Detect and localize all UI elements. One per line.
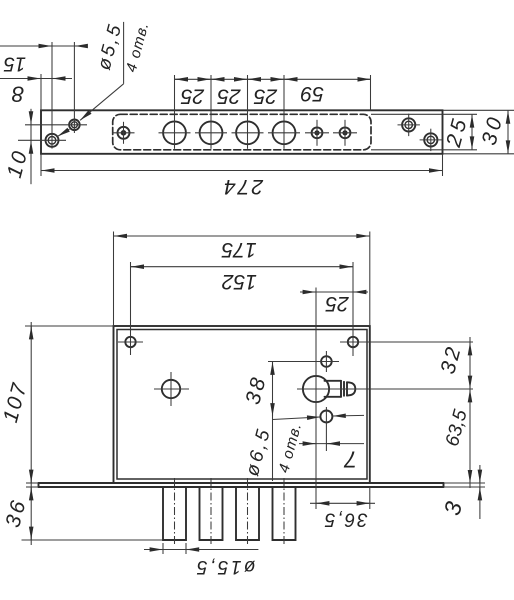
svg-text:152: 152 [222, 270, 257, 293]
leader o6,5 right segment arrow [333, 414, 364, 417]
centerline small hole upper horizontal [268, 361, 339, 363]
arrow 25c right [272, 78, 284, 80]
dimension 15 arrow left [39, 45, 52, 47]
arrow 25b right [235, 78, 247, 80]
centerline screw hole left horizontal [118, 341, 143, 343]
front view: case inner rectangle [117, 330, 367, 480]
top view: screw hole L2 outer [69, 120, 80, 131]
centerline small hole C vertical [123, 122, 125, 144]
dimension 30 vertical line [507, 110, 509, 154]
arrow 7 left [304, 443, 316, 445]
centerline screw hole R1 horizontal [398, 124, 420, 126]
top view: bolt hole 1 [163, 121, 186, 144]
svg-text:59: 59 [300, 82, 324, 105]
extension bolt hole 2 vertical [210, 75, 212, 149]
extension bar left edge up [40, 74, 42, 110]
centerline small hole C horizontal [113, 132, 135, 134]
centerline screw hole R2 horizontal [420, 139, 442, 141]
dimension 10 line [30, 109, 32, 184]
top view: screw hole R2 inner [427, 136, 434, 143]
svg-text:25: 25 [217, 84, 242, 107]
arrow 36,5 right [358, 502, 370, 504]
centerline screw hole R1 vertical [408, 114, 410, 136]
extension pocket top right [371, 113, 477, 115]
svg-text:8: 8 [11, 81, 24, 106]
top view: dashed pocket [113, 114, 371, 150]
arrow 36 top [30, 487, 32, 498]
extension bar left edge down [40, 154, 42, 176]
extension bar right edge down [442, 154, 444, 176]
dimension 107 line [30, 322, 32, 483]
front view: screw hole left [125, 337, 135, 347]
arrow 3 upper [479, 471, 481, 482]
front view: case outer rectangle [114, 326, 370, 483]
leader o5,5 vertical shelf [123, 22, 125, 84]
arrow o15,5 left [151, 549, 163, 551]
top view: screw hole L1 inner [48, 137, 56, 145]
dimension 10 arrow upper [30, 112, 32, 124]
arrow 36 bottom [30, 529, 32, 540]
centerline small hole B horizontal [333, 132, 357, 134]
dimension 25 keyhole line [300, 291, 368, 293]
extension screw hole right vertical [352, 262, 354, 356]
front view: keyhole shank bottom [325, 396, 342, 398]
arrow 59 right [359, 78, 371, 80]
dimension 36 line [30, 483, 32, 545]
arrow 175 left [114, 235, 126, 237]
centerline hole L1 horizontal [18, 139, 66, 141]
extension hole L1 vertical [51, 42, 53, 149]
top view: bolt hole 4 [273, 121, 296, 144]
front view: keyhole shank top [325, 380, 342, 382]
extension bar bottom right [443, 153, 514, 155]
extension plate bottom left [26, 486, 39, 488]
arrow 7 right [327, 443, 339, 445]
dimension 15 arrow right [75, 45, 87, 47]
extension case left up [113, 232, 115, 327]
svg-text:25: 25 [325, 292, 350, 315]
arrow 175 right [357, 235, 369, 237]
arrow 25b left [212, 78, 224, 80]
arrow 38 bottom [272, 405, 274, 417]
centerline bolt hole 2 horizontal [195, 132, 227, 134]
front view: keyhole collar line 1 [340, 381, 342, 397]
arrow 274 right [430, 170, 442, 172]
front view: bolt pin 2 [200, 487, 223, 540]
front view: small hole lower [320, 411, 332, 423]
arrow 107 bottom [30, 471, 32, 483]
front view: keyhole collar line 2 [343, 382, 345, 396]
arrow 25k right [353, 291, 365, 293]
arrow 25c left [248, 78, 260, 80]
dimension 3 line [479, 465, 481, 519]
arrow 32 top [469, 342, 471, 353]
top view: screw hole L2 inner [71, 122, 77, 128]
top view: small hole A filled center [314, 130, 319, 135]
svg-text:25: 25 [254, 84, 279, 107]
top view: small hole B ring [340, 127, 351, 138]
svg-text:15: 15 [3, 52, 26, 74]
dimension 15 line [0, 45, 86, 47]
arrow 30 bottom [507, 142, 509, 153]
dimension 274 line [41, 170, 443, 172]
leader o5,5 arrow to hole L1 [58, 129, 70, 136]
front view: keyhole circle [303, 376, 329, 402]
centerline screw hole R2 vertical [430, 129, 432, 151]
arrow 38 top [272, 362, 274, 374]
centerline hole L2 horizontal [25, 124, 87, 126]
dimension 152 line [131, 266, 354, 268]
front view: bolt pin 4 [273, 487, 296, 540]
arrow 25k left [304, 291, 316, 293]
extension pin1 left down [162, 543, 164, 554]
centerline pin 3 [247, 478, 249, 546]
top view: small hole C filled center [121, 130, 127, 136]
centerline small hole A horizontal [305, 132, 329, 134]
extension case right down [369, 487, 371, 509]
extension pin1 right down [185, 543, 187, 554]
extension plate bottom right [444, 486, 486, 488]
centerline small hole A vertical [316, 120, 318, 146]
centerline bolt hole 3 horizontal [232, 132, 264, 134]
front view: face plate top line [39, 482, 444, 484]
centerline pin 2 [210, 478, 212, 546]
front view: small hole upper [321, 356, 332, 367]
top view: small hole A ring [312, 127, 323, 138]
centerline keyhole horizontal [297, 388, 473, 390]
svg-text:36,5: 36,5 [323, 509, 368, 530]
svg-text:ø15,5: ø15,5 [194, 556, 255, 577]
arrow 36,5 left [316, 502, 328, 504]
arrow 25r top [471, 115, 473, 126]
dimension 25x3/59 line [175, 78, 371, 80]
extension bolt hole 4 vertical [283, 75, 285, 149]
front view: face plate bottom line [39, 486, 444, 488]
front view: face plate left end [38, 483, 40, 487]
arrow 274 left [42, 170, 54, 172]
svg-text:274: 274 [222, 175, 264, 198]
centerline small hole B vertical [344, 120, 346, 146]
dimension 10 arrow lower [30, 141, 32, 153]
arrow 25a left [175, 78, 187, 80]
arrow 152 right [341, 266, 353, 268]
centerline small hole upper vertical [325, 351, 327, 372]
centerline center hole vertical [170, 372, 172, 406]
extension bolt hole 1 vertical [174, 75, 176, 149]
arrow 3 lower [479, 487, 481, 498]
top view: screw hole R1 outer [402, 118, 415, 131]
arrow 152 left [131, 266, 143, 268]
front view: screw hole right [348, 337, 358, 347]
arrow 63,5 bottom [469, 472, 471, 483]
leader o6,5 arrow to lower hole [273, 417, 321, 420]
top view: small hole C ring [118, 127, 130, 139]
extension pocket right edge [370, 75, 372, 111]
svg-text:7: 7 [343, 447, 357, 473]
dimension 25 right vertical line [471, 114, 473, 150]
centerline pin 4 [283, 478, 285, 546]
leader o5,5 arrow to hole L2 [80, 84, 124, 121]
dimension o15,5 line [144, 549, 258, 551]
extension case top left [25, 325, 114, 327]
front view: bolt pin 1 [163, 487, 186, 540]
dimension 8 line [0, 78, 72, 80]
dimension 8 arrow left [28, 78, 41, 80]
top view: screw hole R2 outer [424, 133, 437, 146]
dimension 36,5 line [310, 502, 375, 504]
dimension 7 line [299, 443, 364, 445]
dimension 38 line and callout shelf [272, 362, 274, 482]
front view: bolt pin 3 [236, 487, 259, 540]
front view: keyhole collar line 3 [346, 382, 348, 395]
dimension 32/63,5 line [469, 337, 471, 488]
centerline screw hole right horizontal [340, 341, 473, 343]
top view: bar outline [41, 110, 443, 154]
arrow 25r bottom [471, 138, 473, 149]
dimension 8 arrow right [53, 78, 66, 80]
top view: bolt hole 2 [200, 121, 223, 144]
top view: screw hole L1 outer [46, 134, 59, 147]
front view: center hole [162, 380, 180, 398]
top view: bolt hole 3 [236, 121, 259, 144]
extension plate top left [26, 482, 39, 484]
dimension 175 line [114, 235, 370, 237]
centerline small hole lower vertical [325, 407, 327, 451]
extension screw hole left vertical [130, 262, 132, 355]
extension hole L2 vertical [73, 42, 75, 133]
centerline center hole horizontal [154, 388, 189, 390]
arrow 107 top [30, 326, 32, 338]
extension pins bottom [22, 539, 164, 541]
extension plate top right [444, 482, 486, 484]
centerline bolt hole 1 horizontal [159, 132, 191, 134]
extension pocket bottom right [371, 149, 477, 151]
svg-text:175: 175 [221, 238, 256, 261]
arrow 59 left [285, 78, 297, 80]
centerline keyhole vertical [315, 288, 317, 510]
svg-text:25: 25 [181, 84, 206, 107]
arrow 32 bottom [469, 377, 471, 388]
top view: screw hole R1 inner [405, 121, 412, 128]
arrow 63,5 top [469, 389, 471, 400]
top view: small hole B filled center [342, 130, 347, 135]
front view: face plate right end [443, 483, 445, 487]
arrow 25a right [199, 78, 211, 80]
extension case right up [369, 232, 371, 327]
centerline pin 1 [174, 478, 176, 546]
arrow 30 top [507, 111, 509, 122]
extension bar top right [443, 109, 514, 111]
front view: keyhole round tip [347, 382, 355, 395]
centerline bolt hole 4 horizontal [268, 132, 300, 134]
extension bolt hole 3 vertical [247, 75, 249, 149]
arrow o15,5 right [186, 549, 198, 551]
